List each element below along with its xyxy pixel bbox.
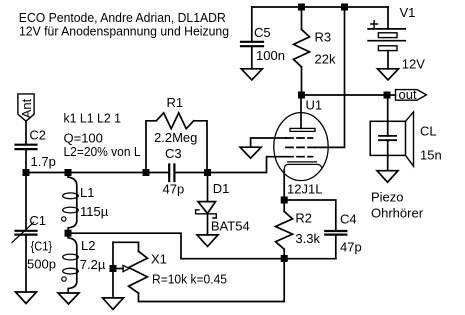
svg-text:BAT54: BAT54 [211, 218, 250, 233]
svg-text:D1: D1 [213, 181, 230, 196]
wire main grid row [26, 157, 286, 173]
svg-text:7.2µ: 7.2µ [80, 257, 106, 272]
net flag out [396, 87, 427, 102]
net flag Ant [18, 94, 34, 121]
svg-text:3.3k: 3.3k [295, 231, 320, 246]
svg-text:12V für Anodenspannung und Hei: 12V für Anodenspannung und Heizung [19, 23, 229, 38]
wire cathode to C4 top [284, 200, 336, 230]
resistor R1 [146, 95, 207, 172]
svg-text:22k: 22k [315, 52, 336, 67]
node junction dot at g2 column on rail [341, 4, 348, 11]
svg-text:47p: 47p [163, 181, 185, 196]
svg-text:2.2Meg: 2.2Meg [154, 130, 197, 145]
svg-text:X1: X1 [151, 252, 167, 267]
svg-text:CL: CL [420, 124, 437, 139]
tube U1 pentode 12J1L [274, 95, 328, 196]
ground below V1 [378, 69, 399, 80]
svg-text:{C1}: {C1} [31, 239, 53, 254]
ground below D1 [197, 235, 218, 247]
svg-text:C2: C2 [29, 128, 46, 143]
capacitor C4 [325, 212, 361, 259]
ground below X1 [103, 298, 124, 310]
capacitor C5 [241, 7, 285, 69]
node junction dot plate node [298, 92, 305, 99]
svg-text:C4: C4 [340, 212, 357, 227]
svg-text:C3: C3 [165, 146, 182, 161]
ground below L2 [58, 293, 79, 304]
node junction dot L1 top [65, 169, 72, 176]
capacitor C3 [163, 146, 185, 196]
svg-text:115µ: 115µ [80, 204, 109, 219]
battery V1 [368, 5, 425, 72]
diode D1 BAT54 [196, 173, 250, 235]
node junction dot R1-C3 left [143, 169, 150, 176]
svg-text:R=10k k=0.45: R=10k k=0.45 [152, 271, 227, 286]
node junction dot C2-C1 [23, 169, 30, 176]
svg-text:12J1L: 12J1L [287, 181, 322, 196]
svg-text:V1: V1 [400, 5, 416, 20]
node junction dot at R3 top on rail [298, 4, 305, 11]
svg-text:1.7p: 1.7p [31, 154, 56, 169]
svg-text:U1: U1 [306, 98, 323, 113]
ground below C5 [241, 69, 262, 80]
inductor L2 [62, 233, 106, 293]
svg-text:Ohrhörer: Ohrhörer [371, 205, 424, 220]
svg-text:15n: 15n [420, 148, 442, 163]
svg-text:12V: 12V [402, 57, 425, 72]
node junction dot piezo branch [384, 92, 391, 99]
ground below C1 [16, 292, 37, 304]
node junction dot D1 top [204, 169, 211, 176]
wire g2 screen grid column to rail [315, 7, 345, 147]
wire R2 C4 bottom row [284, 258, 336, 260]
piezo speaker CL [370, 95, 442, 171]
svg-text:Piezo: Piezo [371, 189, 404, 204]
svg-text:47p: 47p [340, 240, 362, 255]
potentiometer X1 [113, 242, 227, 298]
svg-text:C1: C1 [29, 213, 46, 228]
node junction dot cathode [281, 197, 288, 204]
svg-text:L1: L1 [80, 185, 94, 200]
svg-text:k1 L1 L2 1: k1 L1 L2 1 [64, 110, 122, 125]
node junction dot L1-L2 tap [65, 230, 72, 237]
text piezo caption [371, 189, 424, 220]
svg-text:500p: 500p [27, 257, 56, 272]
svg-text:C5: C5 [254, 25, 271, 40]
ground at g3 [240, 147, 261, 158]
wire top rail from C5 to V1 [252, 6, 388, 8]
text coupling note [64, 110, 141, 159]
svg-text:Q=100: Q=100 [64, 130, 103, 145]
svg-text:100n: 100n [256, 48, 285, 63]
svg-text:L2: L2 [81, 238, 95, 253]
svg-text:R3: R3 [315, 29, 332, 44]
capacitor C2 [16, 121, 56, 172]
resistor R3 [294, 7, 336, 95]
ground below piezo [377, 171, 398, 183]
wire plate output row [302, 94, 396, 96]
wire cathode tap from L1-L2 junction [68, 233, 284, 259]
inductor L1 [62, 173, 109, 234]
capacitor C1 variable [12, 173, 56, 293]
resistor R2 [276, 200, 321, 259]
wire bottom return to potentiometer [139, 259, 285, 302]
wire g3 to ground [251, 138, 286, 147]
svg-text:Ant: Ant [19, 98, 34, 118]
wire cathode lead [283, 170, 285, 200]
svg-text:R2: R2 [295, 210, 312, 225]
svg-text:L2=20% von L: L2=20% von L [64, 144, 141, 159]
node junction dot X1 wiper [110, 265, 117, 272]
node junction dot cathode network bottom [281, 255, 288, 262]
svg-text:out: out [399, 87, 417, 102]
svg-text:R1: R1 [167, 95, 184, 110]
